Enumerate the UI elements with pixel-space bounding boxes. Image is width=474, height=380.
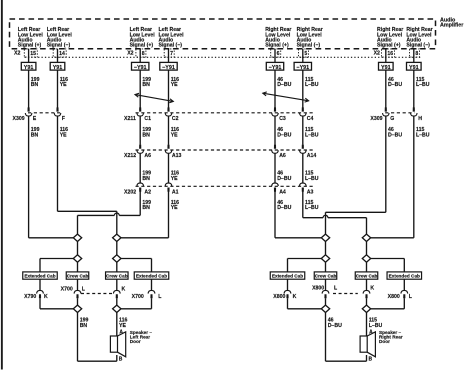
svg-text:E: E — [33, 116, 37, 122]
svg-text:A4: A4 — [279, 189, 286, 195]
svg-text:C1: C1 — [144, 116, 151, 122]
svg-text:Right RearLow LevelAudioSignal: Right RearLow LevelAudioSignal (−) — [406, 27, 432, 48]
svg-text:Left RearLow LevelAudioSignal: Left RearLow LevelAudioSignal (+) — [130, 27, 156, 48]
svg-text:199BN: 199BN — [80, 318, 89, 329]
svg-text:X202: X202 — [124, 189, 136, 195]
svg-text:Crew Cab: Crew Cab — [356, 274, 378, 279]
svg-text:Left RearLow LevelAudioSignal: Left RearLow LevelAudioSignal (+) — [18, 27, 44, 48]
svg-text:8: 8 — [142, 51, 145, 57]
svg-text:Y91: Y91 — [381, 65, 391, 71]
svg-text:K: K — [370, 285, 374, 291]
svg-text:A2: A2 — [144, 189, 151, 195]
svg-text:X212: X212 — [124, 153, 136, 159]
svg-text:199BN: 199BN — [31, 127, 40, 138]
svg-text:5: 5 — [304, 51, 307, 57]
svg-text:X211: X211 — [124, 116, 136, 122]
svg-text:Right RearLow LevelAudioSignal: Right RearLow LevelAudioSignal (+) — [377, 27, 403, 48]
svg-text:199BN: 199BN — [142, 200, 151, 211]
svg-text:Crew Cab: Crew Cab — [106, 274, 128, 279]
svg-text:K: K — [293, 294, 297, 300]
svg-text:G: G — [390, 116, 394, 122]
svg-text:199BN: 199BN — [142, 77, 151, 88]
svg-text:A6: A6 — [279, 153, 286, 159]
svg-text:A3: A3 — [307, 189, 314, 195]
svg-text:K: K — [44, 294, 48, 300]
svg-text:7: 7 — [170, 51, 173, 57]
svg-text:X800: X800 — [312, 285, 324, 291]
svg-text:Extended Cab: Extended Cab — [136, 274, 167, 279]
svg-text:B: B — [369, 357, 373, 363]
svg-text:8: 8 — [415, 51, 418, 57]
svg-text:Y91: Y91 — [409, 65, 419, 71]
svg-text:Extended Cab: Extended Cab — [389, 274, 420, 279]
svg-text:Left RearLow LevelAudioSignal: Left RearLow LevelAudioSignal (−) — [47, 27, 73, 48]
svg-text:−Y91: −Y91 — [134, 65, 147, 71]
svg-text:X2: X2 — [127, 51, 133, 57]
svg-text:X800: X800 — [388, 294, 400, 300]
svg-text:199BN: 199BN — [142, 127, 151, 138]
svg-text:A6: A6 — [144, 153, 151, 159]
svg-text:Left RearLow LevelAudioSignal: Left RearLow LevelAudioSignal (−) — [159, 27, 185, 48]
svg-text:X309: X309 — [13, 116, 25, 122]
svg-text:X790: X790 — [24, 294, 36, 300]
svg-text:K: K — [122, 286, 126, 292]
svg-text:Right RearLow LevelAudioSignal: Right RearLow LevelAudioSignal (−) — [297, 27, 323, 48]
svg-text:−Y91: −Y91 — [296, 65, 309, 71]
svg-text:15: 15 — [30, 51, 36, 57]
svg-text:Crew Cab: Crew Cab — [67, 274, 89, 279]
svg-text:−Y91: −Y91 — [162, 65, 175, 71]
svg-text:X700: X700 — [132, 294, 144, 300]
svg-text:C3: C3 — [279, 116, 286, 122]
svg-text:Y91: Y91 — [53, 65, 63, 71]
svg-text:A13: A13 — [172, 153, 182, 159]
svg-text:A14: A14 — [307, 153, 317, 159]
svg-text:14: 14 — [59, 51, 65, 57]
svg-text:C4: C4 — [307, 116, 314, 122]
svg-text:Right RearLow LevelAudioSignal: Right RearLow LevelAudioSignal (+) — [265, 27, 291, 48]
svg-text:H: H — [418, 116, 422, 122]
svg-text:X800: X800 — [273, 294, 285, 300]
svg-text:−Y91: −Y91 — [269, 65, 282, 71]
svg-text:Extended Cab: Extended Cab — [272, 274, 303, 279]
svg-text:X2: X2 — [14, 51, 20, 57]
svg-text:Crew Cab: Crew Cab — [315, 274, 337, 279]
svg-text:X700: X700 — [61, 286, 73, 292]
svg-text:C2: C2 — [172, 116, 179, 122]
svg-text:Extended Cab: Extended Cab — [24, 274, 55, 279]
svg-text:B: B — [119, 357, 123, 363]
svg-text:199BN: 199BN — [31, 77, 40, 88]
svg-text:X309: X309 — [370, 116, 382, 122]
svg-text:Y91: Y91 — [24, 65, 34, 71]
svg-text:6: 6 — [277, 51, 280, 57]
svg-text:16: 16 — [387, 51, 393, 57]
svg-text:X2: X2 — [374, 51, 380, 57]
svg-text:A1: A1 — [172, 189, 179, 195]
svg-text:199BN: 199BN — [142, 171, 151, 182]
svg-text:F: F — [62, 116, 65, 122]
